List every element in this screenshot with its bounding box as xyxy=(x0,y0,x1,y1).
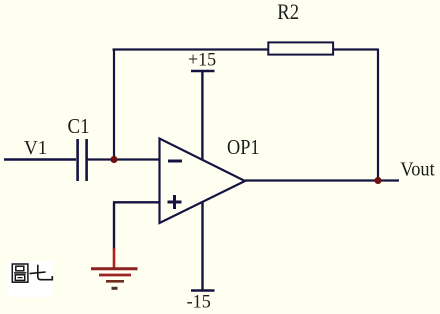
wire feedback right vertical xyxy=(377,49,379,181)
+15 supply bar xyxy=(191,70,215,73)
ground xyxy=(91,248,138,288)
svg-text:+15: +15 xyxy=(188,49,216,69)
-15 supply bar xyxy=(191,289,215,292)
svg-text:V1: V1 xyxy=(24,138,47,160)
wire feedback vertical from node A up xyxy=(113,50,115,161)
figure caption glyph 圖 (hand-drawn) xyxy=(12,264,28,282)
wire output xyxy=(245,179,399,181)
wire feedback top horizontal xyxy=(113,48,379,50)
svg-text:R2: R2 xyxy=(277,0,299,24)
svg-text:OP1: OP1 xyxy=(227,136,259,160)
capacitor C1 xyxy=(78,139,87,181)
op-amp minus symbol xyxy=(168,160,182,163)
node Vout junction dot xyxy=(374,177,381,184)
wire plus input vertical down to ground xyxy=(113,202,115,249)
wire plus input horizontal xyxy=(113,201,159,203)
wire V1 input xyxy=(4,158,76,160)
svg-text:-15: -15 xyxy=(187,291,211,311)
+15 supply stem xyxy=(201,71,203,160)
node A junction dot (C1 / feedback) xyxy=(110,156,117,163)
wire C1 to op-amp minus input xyxy=(87,158,159,160)
white patch behind figure caption xyxy=(8,261,53,297)
figure caption glyph 七 (hand-drawn) xyxy=(30,265,53,280)
svg-text:C1: C1 xyxy=(68,115,90,138)
op-amp plus symbol xyxy=(168,195,182,209)
resistor R2 xyxy=(268,42,333,54)
-15 supply stem xyxy=(201,202,203,292)
svg-text:Vout: Vout xyxy=(400,159,435,181)
op-amp U1 triangle xyxy=(160,139,246,224)
